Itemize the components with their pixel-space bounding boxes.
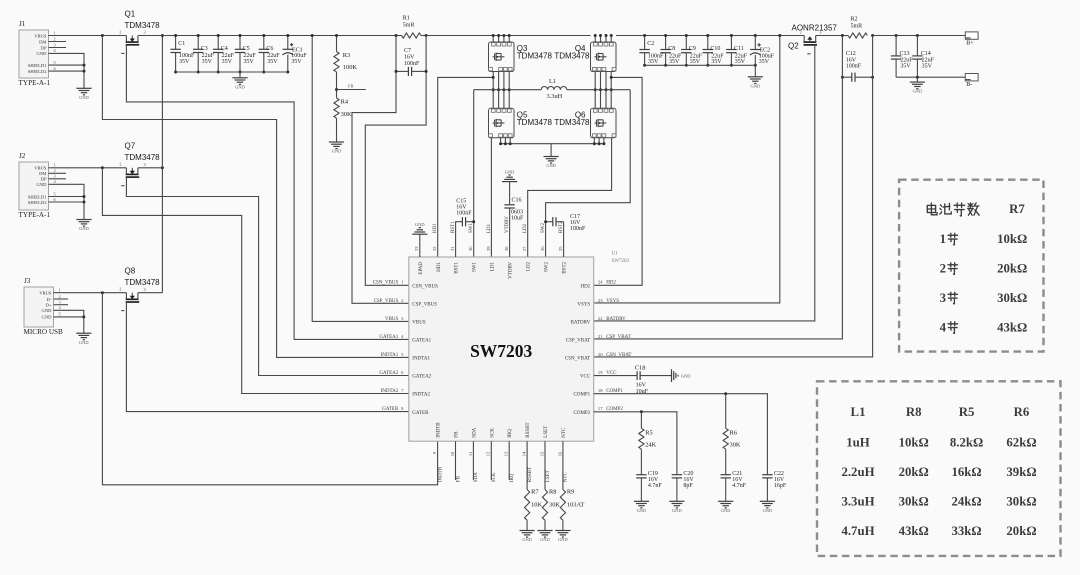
svg-text:TDM3478: TDM3478 bbox=[125, 21, 161, 30]
svg-text:8pF: 8pF bbox=[683, 483, 693, 489]
wire J2 DM stub bbox=[49, 172, 67, 174]
svg-text:C6: C6 bbox=[266, 46, 273, 52]
wire INDTA2 detect route bbox=[102, 168, 408, 394]
node FB junction bbox=[335, 88, 338, 91]
svg-text:12: 12 bbox=[486, 451, 491, 456]
svg-text:LSET: LSET bbox=[546, 470, 551, 482]
wire SCK stub bbox=[490, 441, 492, 480]
wire Q5 source pad bbox=[500, 138, 502, 144]
svg-text:2: 2 bbox=[799, 29, 801, 34]
resistor R1 bbox=[402, 33, 421, 38]
svg-text:8.2kΩ: 8.2kΩ bbox=[950, 436, 983, 450]
wire Q5 source pad bbox=[509, 138, 511, 144]
transistor Q6 TDM3478 bbox=[591, 108, 617, 138]
svg-text:INDTA2: INDTA2 bbox=[381, 389, 399, 394]
svg-text:GND: GND bbox=[332, 149, 342, 154]
wire Q3 drain pad bbox=[508, 36, 510, 43]
wire bank1 gnd tap bbox=[239, 72, 241, 78]
svg-text:R4: R4 bbox=[341, 99, 349, 106]
svg-text:C2: C2 bbox=[647, 41, 654, 47]
wire rail R2 to B+ bbox=[873, 35, 966, 37]
svg-text:SW1: SW1 bbox=[469, 223, 474, 234]
svg-text:35V: 35V bbox=[179, 59, 190, 65]
svg-text:35V: 35V bbox=[222, 59, 233, 65]
capacitor C10 bbox=[703, 34, 713, 67]
ground R7 bbox=[520, 530, 535, 532]
svg-text:35V: 35V bbox=[900, 63, 911, 69]
wire J3 VBUS to Q8 bbox=[54, 292, 127, 294]
svg-text:GND: GND bbox=[558, 537, 568, 542]
svg-text:35V: 35V bbox=[711, 59, 722, 65]
svg-text:HD2: HD2 bbox=[580, 284, 590, 289]
wire R1 right kelvin bbox=[365, 36, 426, 286]
svg-text:TDM3478: TDM3478 bbox=[125, 153, 161, 162]
svg-text:16V: 16V bbox=[648, 477, 659, 483]
capacitor C5 bbox=[235, 34, 245, 74]
svg-text:GND: GND bbox=[37, 51, 48, 56]
svg-text:C22: C22 bbox=[774, 471, 784, 477]
wire J3 GND1 to ground bbox=[54, 310, 84, 333]
svg-text:2: 2 bbox=[59, 294, 61, 299]
svg-text:GND: GND bbox=[763, 508, 773, 513]
svg-text:35V: 35V bbox=[669, 59, 680, 65]
svg-text:HD1: HD1 bbox=[433, 223, 438, 233]
svg-text:35V: 35V bbox=[291, 59, 302, 65]
wire Q2 gate BATDRV route bbox=[594, 45, 815, 321]
svg-text:20kΩ: 20kΩ bbox=[1006, 524, 1036, 538]
ground C22 bbox=[760, 500, 775, 502]
svg-text:J2: J2 bbox=[19, 152, 26, 160]
svg-text:VCC: VCC bbox=[580, 375, 591, 380]
junction J3 gnd join bbox=[82, 315, 85, 318]
junction R1 terminals bbox=[395, 34, 428, 37]
svg-text:4.7nF: 4.7nF bbox=[732, 483, 747, 489]
svg-text:30: 30 bbox=[468, 246, 473, 251]
svg-text:Q8: Q8 bbox=[125, 267, 136, 276]
svg-text:3: 3 bbox=[940, 291, 946, 305]
svg-text:RSSBT: RSSBT bbox=[528, 467, 533, 482]
capacitor C3 bbox=[193, 34, 203, 74]
svg-text:LSET: LSET bbox=[544, 426, 549, 438]
junction R2 terminals bbox=[841, 34, 874, 37]
wire Q3-Q5 column bbox=[492, 72, 494, 109]
wire R6 to C21 bbox=[725, 449, 727, 475]
svg-text:GND: GND bbox=[79, 95, 89, 100]
wire rail bridge to Q2 bbox=[616, 35, 804, 37]
svg-text:SW2: SW2 bbox=[545, 262, 550, 273]
svg-text:62kΩ: 62kΩ bbox=[1006, 436, 1036, 450]
ground J2 bbox=[76, 219, 91, 221]
wire Q4-Q6 column bbox=[610, 72, 612, 109]
svg-text:INDTA1: INDTA1 bbox=[412, 357, 430, 362]
svg-text:100K: 100K bbox=[343, 64, 358, 71]
wire Q6 gate to LD2 bbox=[528, 138, 612, 257]
svg-text:R8: R8 bbox=[549, 489, 556, 496]
svg-text:U1: U1 bbox=[612, 252, 619, 257]
wire bank2 gnd tap bbox=[754, 65, 756, 77]
wire J2 SHIELD1 bbox=[49, 196, 85, 198]
svg-text:24kΩ: 24kΩ bbox=[952, 495, 982, 509]
op-amp U1 SW7203 body bbox=[409, 257, 594, 441]
svg-text:C18: C18 bbox=[635, 365, 646, 372]
svg-text:COMP2: COMP2 bbox=[574, 411, 591, 416]
wire Q8 drain to rail bbox=[138, 292, 163, 294]
svg-text:LD2: LD2 bbox=[527, 262, 532, 272]
svg-text:R3: R3 bbox=[343, 52, 350, 59]
svg-text:43kΩ: 43kΩ bbox=[899, 524, 929, 538]
svg-text:14: 14 bbox=[522, 451, 527, 456]
capacitor C21 bbox=[721, 475, 731, 502]
svg-text:R5: R5 bbox=[645, 430, 652, 437]
capacitor EC2 bbox=[750, 34, 761, 67]
wire Q4 drain pad bbox=[605, 36, 607, 43]
wire pin16 to R9 bbox=[562, 441, 564, 489]
junction J1 shield joins bbox=[83, 64, 86, 73]
svg-text:16V: 16V bbox=[732, 477, 743, 483]
svg-text:30K: 30K bbox=[730, 442, 741, 449]
svg-text:C13: C13 bbox=[900, 51, 910, 57]
ground R4 bbox=[329, 141, 344, 143]
capacitor C4 bbox=[213, 34, 223, 74]
svg-text:15: 15 bbox=[539, 451, 544, 456]
junction drain rail top bbox=[161, 34, 164, 37]
svg-text:33kΩ: 33kΩ bbox=[952, 524, 982, 538]
svg-text:C1: C1 bbox=[178, 41, 185, 47]
svg-text:18: 18 bbox=[598, 388, 603, 393]
svg-text:2.2uH: 2.2uH bbox=[841, 465, 874, 479]
wire output cap bank ground bus bbox=[645, 64, 756, 66]
wire R6 top bbox=[725, 394, 727, 429]
svg-text:3.3uH: 3.3uH bbox=[547, 93, 563, 100]
wire Q7 drain to rail bbox=[138, 167, 163, 169]
svg-text:VTDRV: VTDRV bbox=[509, 262, 514, 279]
wire VBUS to IC pin3 bbox=[312, 36, 409, 322]
resistor R7 bbox=[525, 490, 530, 521]
svg-text:16: 16 bbox=[557, 451, 562, 456]
svg-text:13: 13 bbox=[504, 451, 509, 456]
wire R1 right stub bbox=[421, 35, 426, 37]
transistor Q7 TDM3478 bbox=[119, 162, 146, 186]
capacitor C8 bbox=[660, 34, 670, 67]
transistor Q3 TDM3478 bbox=[489, 42, 515, 72]
svg-text:C20: C20 bbox=[683, 471, 693, 477]
junction J2 shield joins bbox=[83, 195, 86, 204]
svg-text:24K: 24K bbox=[645, 442, 656, 449]
table1 header cells bbox=[927, 203, 979, 216]
svg-text:GND: GND bbox=[546, 163, 556, 168]
svg-text:LD2: LD2 bbox=[523, 223, 528, 233]
svg-text:GATEA2: GATEA2 bbox=[412, 375, 431, 380]
svg-text:GND: GND bbox=[37, 182, 48, 187]
wire rail R1 to bridge bbox=[426, 35, 590, 37]
junction BD2 gate tap bbox=[610, 76, 613, 79]
connector J3 box bbox=[24, 287, 54, 327]
svg-text:35V: 35V bbox=[735, 59, 746, 65]
wire J1 SHIELD1 bbox=[49, 64, 85, 66]
wire VTDRV stub bbox=[509, 208, 511, 257]
svg-text:CSN_VBUS: CSN_VBUS bbox=[412, 284, 438, 289]
svg-text:DM: DM bbox=[39, 171, 46, 176]
junction battery caps top bbox=[895, 34, 919, 37]
svg-text:GND: GND bbox=[79, 226, 89, 231]
svg-text:GND: GND bbox=[681, 373, 691, 378]
wire J1 VBUS to Q1 bbox=[49, 35, 127, 37]
svg-text:IRQ: IRQ bbox=[510, 473, 515, 482]
wire Q5 source pad bbox=[504, 138, 506, 144]
junction R6 tap bbox=[724, 392, 727, 395]
svg-text:LD1: LD1 bbox=[487, 223, 492, 233]
svg-text:GND: GND bbox=[42, 308, 53, 313]
svg-text:MICRO USB: MICRO USB bbox=[24, 328, 64, 336]
wire COMP1 row bbox=[594, 394, 768, 475]
ground C20 bbox=[669, 500, 684, 502]
svg-text:SCK: SCK bbox=[490, 428, 495, 438]
wire Q4-Q6 column bbox=[600, 72, 602, 109]
ground C18 sideways bbox=[671, 369, 673, 382]
svg-text:30kΩ: 30kΩ bbox=[1006, 495, 1036, 509]
junction Q3 drain pads bbox=[492, 34, 511, 37]
svg-text:4.7nF: 4.7nF bbox=[648, 483, 663, 489]
capacitor C14 bbox=[912, 36, 922, 78]
node J1 VBUS detect tap bbox=[101, 34, 104, 37]
svg-text:TDM3478: TDM3478 bbox=[517, 52, 553, 61]
resistor R8 bbox=[542, 490, 547, 521]
junction Q7 drain bbox=[161, 166, 164, 169]
wire R5 to C19 bbox=[640, 449, 642, 475]
wire COMP2 row bbox=[594, 412, 677, 475]
capacitor C7 bbox=[395, 67, 428, 76]
svg-text:R7: R7 bbox=[531, 489, 539, 496]
wire R2 left kelvin CSP_VBAT bbox=[594, 36, 843, 339]
svg-text:GND: GND bbox=[522, 537, 532, 542]
ground input cap bank bbox=[232, 77, 247, 79]
svg-text:20: 20 bbox=[598, 352, 603, 357]
svg-text:GND: GND bbox=[505, 169, 515, 174]
wire L1 to SW2 node bbox=[567, 89, 630, 91]
svg-text:SW7203: SW7203 bbox=[612, 259, 630, 264]
wire Q4 drain pad bbox=[600, 36, 602, 43]
wire VBUS rail left bbox=[138, 35, 396, 37]
wire bridge ground bus bbox=[501, 143, 604, 145]
svg-text:J3: J3 bbox=[24, 277, 31, 285]
svg-text:DP: DP bbox=[41, 177, 47, 182]
svg-text:16V: 16V bbox=[636, 383, 647, 389]
ground C16 inverted bbox=[502, 181, 517, 183]
svg-text:SW7203: SW7203 bbox=[470, 341, 532, 361]
capacitor C16 bbox=[504, 182, 514, 208]
svg-text:19: 19 bbox=[598, 370, 603, 375]
wire Q3 drain pad bbox=[503, 36, 505, 43]
capacitor C9 bbox=[681, 34, 691, 67]
svg-text:1: 1 bbox=[54, 163, 56, 168]
svg-text:HD1: HD1 bbox=[437, 262, 442, 272]
svg-text:43kΩ: 43kΩ bbox=[997, 320, 1027, 334]
svg-text:100nF: 100nF bbox=[846, 63, 862, 69]
wire drain rail Q7 Q8 bbox=[161, 36, 163, 293]
ground output cap bank bbox=[748, 76, 763, 78]
svg-text:C16: C16 bbox=[512, 198, 522, 204]
svg-text:FB: FB bbox=[455, 431, 460, 438]
svg-text:Q7: Q7 bbox=[125, 142, 136, 151]
table inductor dashed border bbox=[817, 381, 1061, 556]
svg-text:GND: GND bbox=[913, 89, 923, 94]
svg-text:VBUS: VBUS bbox=[385, 317, 399, 322]
wire J2 VBUS to Q7 bbox=[49, 167, 127, 169]
wire Q3 drain pad bbox=[498, 36, 500, 43]
wire Q4-Q6 column bbox=[605, 72, 607, 109]
svg-text:GND: GND bbox=[540, 537, 550, 542]
wire SW2 route to IC pin26 bbox=[546, 90, 631, 257]
svg-text:L1: L1 bbox=[851, 405, 866, 419]
svg-text:100nF: 100nF bbox=[404, 61, 420, 67]
svg-text:LD1: LD1 bbox=[491, 262, 496, 272]
svg-text:GND: GND bbox=[42, 315, 53, 320]
svg-text:33: 33 bbox=[414, 246, 419, 251]
svg-text:39kΩ: 39kΩ bbox=[1006, 465, 1036, 479]
svg-text:30kΩ: 30kΩ bbox=[997, 291, 1027, 305]
wire Q3-Q5 column bbox=[503, 72, 505, 109]
svg-text:4: 4 bbox=[940, 320, 947, 334]
svg-text:NTC: NTC bbox=[562, 427, 567, 438]
svg-text:SCK: SCK bbox=[492, 472, 497, 482]
svg-text:2: 2 bbox=[940, 261, 946, 275]
connector J2 box bbox=[19, 162, 49, 210]
svg-text:R1: R1 bbox=[403, 16, 410, 22]
wire battery gnd tap bbox=[916, 77, 918, 82]
svg-text:C8: C8 bbox=[668, 46, 675, 52]
svg-text:R6: R6 bbox=[1014, 405, 1030, 419]
svg-text:CSN_VBAT: CSN_VBAT bbox=[606, 353, 631, 358]
svg-text:CSP_VBUS: CSP_VBUS bbox=[374, 299, 399, 304]
svg-text:30K: 30K bbox=[549, 502, 560, 509]
svg-text:10K: 10K bbox=[531, 502, 542, 509]
svg-text:35V: 35V bbox=[759, 59, 770, 65]
svg-text:HD2: HD2 bbox=[606, 281, 616, 286]
wire rail to R3 bbox=[336, 36, 338, 52]
svg-text:IRQ: IRQ bbox=[508, 429, 513, 438]
svg-text:SHIELD2: SHIELD2 bbox=[28, 69, 47, 74]
svg-text:35V: 35V bbox=[202, 59, 213, 65]
svg-text:29: 29 bbox=[486, 246, 491, 251]
junction Q4 drain pads bbox=[594, 34, 613, 37]
wire FB stub bbox=[455, 441, 457, 480]
svg-text:B+: B+ bbox=[966, 41, 974, 47]
terminal B- bbox=[965, 74, 978, 81]
svg-text:DP: DP bbox=[41, 45, 47, 50]
svg-text:2: 2 bbox=[119, 287, 121, 292]
svg-text:GND: GND bbox=[637, 508, 647, 513]
ground J3 bbox=[76, 332, 91, 334]
svg-text:Q2: Q2 bbox=[788, 42, 799, 51]
wire R5 top bbox=[640, 412, 642, 429]
svg-text:VBUS: VBUS bbox=[39, 291, 52, 296]
svg-text:R7: R7 bbox=[1009, 202, 1025, 216]
wire Q6 source pad bbox=[603, 138, 605, 144]
svg-text:TDM3478: TDM3478 bbox=[554, 118, 590, 127]
wire Q4-Q6 column bbox=[594, 72, 596, 109]
wire INDTB detect route bbox=[102, 293, 437, 485]
svg-text:2: 2 bbox=[119, 162, 121, 167]
svg-text:GATEB: GATEB bbox=[382, 407, 399, 412]
resistor R5 bbox=[639, 428, 644, 449]
svg-text:10kΩ: 10kΩ bbox=[997, 232, 1027, 246]
wire Q4 gate to BD2 bbox=[594, 77, 642, 285]
wire pin14 to R7 bbox=[526, 441, 528, 489]
junction VBUS tap bbox=[311, 34, 314, 37]
ground EPAD inverted bbox=[412, 233, 427, 235]
svg-text:21: 21 bbox=[598, 334, 603, 339]
terminal B+ bbox=[965, 32, 978, 39]
wire Q5 gate to LD1 bbox=[490, 138, 492, 257]
table battery-cells dashed border bbox=[899, 180, 1043, 352]
svg-text:GATEB: GATEB bbox=[412, 411, 429, 416]
svg-text:28: 28 bbox=[504, 246, 509, 251]
svg-text:GATEA1: GATEA1 bbox=[412, 339, 431, 344]
svg-text:26: 26 bbox=[540, 246, 545, 251]
resistor R9 bbox=[560, 490, 565, 521]
svg-text:INDTA1: INDTA1 bbox=[381, 353, 399, 358]
svg-text:103AT: 103AT bbox=[567, 502, 584, 509]
ground R9 bbox=[555, 530, 570, 532]
wire R1 left kelvin bbox=[352, 36, 409, 304]
svg-text:5mR: 5mR bbox=[851, 24, 863, 30]
svg-text:FB: FB bbox=[456, 475, 461, 482]
junction SW1 column bbox=[492, 88, 511, 91]
svg-text:GND: GND bbox=[415, 222, 425, 227]
capacitor C13 bbox=[891, 36, 901, 78]
svg-text:30K: 30K bbox=[341, 111, 352, 118]
wire J1 SHIELD2 bbox=[49, 70, 85, 72]
svg-text:16kΩ: 16kΩ bbox=[952, 465, 982, 479]
capacitor C15 bbox=[462, 217, 475, 226]
wire J3 GND2 bbox=[54, 316, 84, 318]
wire BST2 stub bbox=[563, 222, 565, 257]
wire BST1 to C15 bbox=[456, 222, 463, 257]
wire bridge gnd tap bbox=[550, 144, 552, 157]
wire J1 DM stub bbox=[49, 41, 67, 43]
svg-text:TDM3478: TDM3478 bbox=[517, 118, 553, 127]
wire Q6 source pad bbox=[593, 138, 595, 144]
transistor Q8 TDM3478 bbox=[119, 287, 146, 311]
svg-text:1: 1 bbox=[59, 288, 61, 293]
svg-text:VSYS: VSYS bbox=[577, 302, 590, 307]
node J2 VBUS detect tap bbox=[101, 166, 104, 169]
svg-text:NTC: NTC bbox=[564, 472, 569, 483]
svg-text:C21: C21 bbox=[732, 471, 742, 477]
svg-text:SW1: SW1 bbox=[473, 262, 478, 273]
wire J2 SHIELD2 bbox=[49, 201, 85, 203]
svg-text:C3: C3 bbox=[201, 46, 208, 52]
wire R3 to R4 bbox=[336, 72, 338, 98]
svg-text:BATDRV: BATDRV bbox=[606, 317, 626, 322]
svg-text:35V: 35V bbox=[267, 59, 278, 65]
ground C19 bbox=[634, 500, 649, 502]
svg-text:C10: C10 bbox=[710, 46, 720, 52]
svg-text:C11: C11 bbox=[734, 46, 744, 52]
capacitor C12 bbox=[841, 73, 874, 82]
wire J3 D+ stub bbox=[54, 304, 69, 306]
junction bridge bus bbox=[499, 142, 605, 145]
wire Q3 gate to HD1 bbox=[438, 77, 494, 257]
svg-text:CSP_VBAT: CSP_VBAT bbox=[566, 339, 590, 344]
wire Q2 to R2 bbox=[816, 35, 848, 37]
wire Q1 gate route GATEA1 bbox=[126, 45, 408, 340]
svg-text:CSP_VBUS: CSP_VBUS bbox=[412, 302, 437, 307]
resistor R6 bbox=[723, 428, 728, 449]
svg-text:TDM3478: TDM3478 bbox=[554, 52, 590, 61]
svg-text:FB: FB bbox=[348, 83, 353, 88]
wire R7 to ground bbox=[526, 520, 528, 530]
